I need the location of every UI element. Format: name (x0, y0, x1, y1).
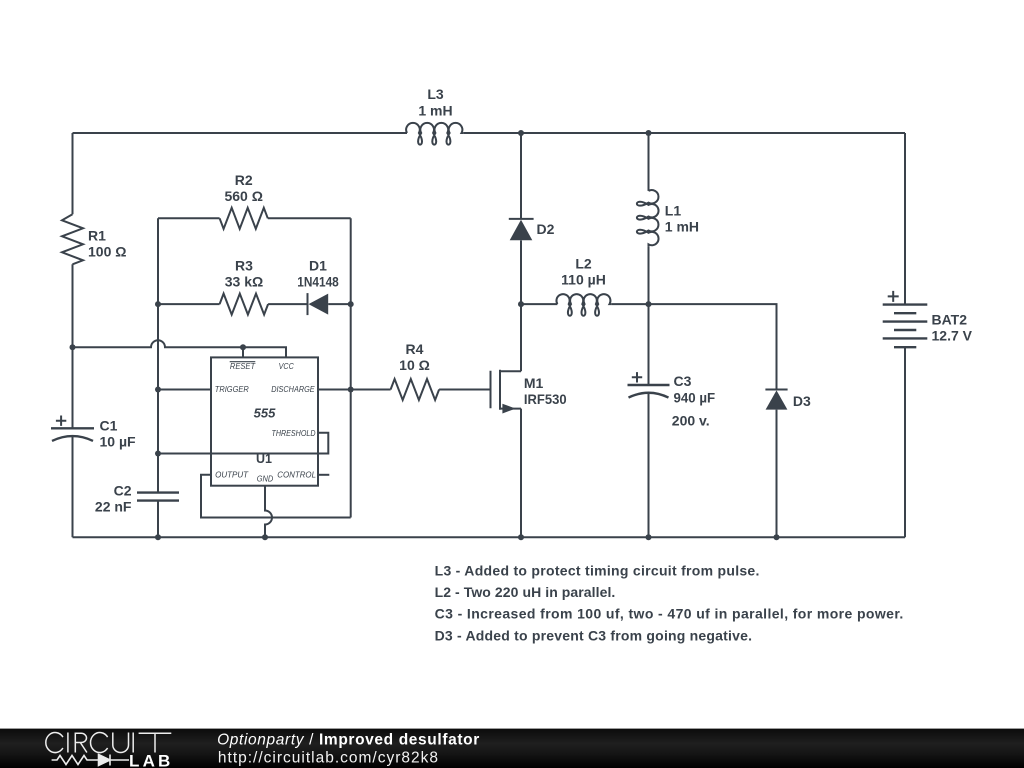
svg-text:C2: C2 (114, 483, 132, 499)
transistor M1 (491, 370, 567, 414)
wire left rail (72, 133, 74, 537)
junction R3 right (348, 301, 354, 307)
svg-text:L2: L2 (575, 256, 592, 272)
svg-text:TRIGGER: TRIGGER (215, 384, 249, 394)
svg-text:L1: L1 (665, 203, 682, 219)
svg-text:L3 - Added to protect timing c: L3 - Added to protect timing circuit fro… (435, 563, 760, 579)
svg-text:200 v.: 200 v. (672, 412, 710, 428)
inductor L1 (637, 190, 699, 247)
footer bar (0, 729, 1024, 768)
wire R2 row (158, 217, 351, 219)
svg-text:10 µF: 10 µF (100, 434, 137, 450)
svg-text:1 mH: 1 mH (665, 219, 699, 235)
wire C2 bottom (157, 501, 159, 538)
footer url (218, 749, 439, 766)
svg-text:THRESHOLD: THRESHOLD (272, 428, 316, 438)
svg-text:U1: U1 (256, 452, 272, 466)
svg-text:D2: D2 (537, 221, 555, 237)
svg-text:D1: D1 (309, 257, 327, 273)
wire GND with hop (265, 486, 272, 538)
wire TRIGGER (158, 389, 211, 391)
footer title (217, 731, 480, 748)
wire THRESHOLD (158, 433, 328, 454)
junction bottom rail / D3 (774, 534, 780, 540)
resistor R2 (220, 172, 268, 229)
resistor R4 (391, 341, 440, 400)
svg-text:RESET: RESET (230, 361, 256, 371)
wire bottom rail (73, 536, 906, 538)
wire D3 branch (649, 304, 777, 537)
wire M1 source (520, 409, 522, 538)
svg-text:GND: GND (257, 474, 274, 484)
notes text (435, 563, 904, 644)
svg-text:Optionparty / Improved desulfa: Optionparty / Improved desulfator (217, 731, 480, 748)
junction bottom rail / source (518, 534, 524, 540)
junction bottom rail / C3 (646, 534, 652, 540)
svg-text:http://circuitlab.com/cyr82k8: http://circuitlab.com/cyr82k8 (218, 749, 439, 766)
svg-text:IRF530: IRF530 (524, 391, 567, 407)
resistor R1 (62, 214, 126, 264)
capacitor C2 (95, 483, 179, 515)
svg-text:M1: M1 (524, 375, 544, 391)
wire R3 row (158, 303, 351, 305)
svg-text:100 Ω: 100 Ω (88, 243, 126, 259)
wire L2 row (521, 303, 649, 305)
wire R2 right vertical (350, 218, 352, 517)
diode D3 (765, 390, 811, 410)
wire RESET/VCC (73, 340, 287, 357)
svg-text:C3: C3 (674, 373, 692, 389)
svg-text:10 Ω: 10 Ω (399, 357, 430, 373)
junction bottom rail / GND (262, 534, 268, 540)
junction top rail / D2 (518, 130, 524, 136)
wire right rail (904, 133, 906, 537)
wire DISCHARGE row (318, 389, 491, 391)
wire OUTPUT (201, 475, 351, 518)
svg-text:12.7 V: 12.7 V (932, 327, 973, 343)
svg-text:CONTROL: CONTROL (277, 470, 316, 480)
svg-text:L3: L3 (427, 86, 444, 102)
wire C3 branch (648, 304, 650, 537)
svg-text:1 mH: 1 mH (418, 102, 452, 118)
svg-text:LAB: LAB (129, 751, 174, 768)
resistor R3 (220, 257, 269, 314)
svg-text:22 nF: 22 nF (95, 499, 132, 515)
svg-text:D3 - Added to prevent C3 from: D3 - Added to prevent C3 from going nega… (435, 627, 752, 643)
junction left rail / reset wire (70, 344, 76, 350)
svg-text:VCC: VCC (279, 361, 295, 371)
svg-text:C3 - Increased from 100 uf, tw: C3 - Increased from 100 uf, two - 470 uf… (435, 606, 904, 622)
junction L1 / L2 (646, 301, 652, 307)
svg-text:R4: R4 (406, 341, 424, 357)
svg-text:R1: R1 (88, 227, 106, 243)
svg-text:560 Ω: 560 Ω (224, 188, 262, 204)
wire top rail (73, 132, 906, 134)
svg-text:OUTPUT: OUTPUT (215, 470, 249, 480)
wire D2 branch (520, 133, 522, 371)
svg-text:C1: C1 (100, 418, 118, 434)
capacitor C1 (51, 416, 136, 450)
svg-text:110 µH: 110 µH (561, 272, 606, 288)
IC U1 555 timer (211, 357, 318, 485)
battery BAT2 (883, 291, 973, 347)
diode D2 (509, 219, 555, 240)
wire CONTROL stub (318, 474, 329, 476)
junction drain / L2 (518, 301, 524, 307)
svg-text:940 µF: 940 µF (674, 390, 716, 406)
svg-text:33 kΩ: 33 kΩ (225, 273, 263, 289)
wire L1 bottom (648, 247, 650, 304)
inductor L3 (406, 86, 464, 145)
svg-text:555: 555 (254, 405, 276, 420)
inductor L2 (556, 256, 611, 316)
svg-text:R3: R3 (235, 257, 253, 273)
junction top rail / L1 (646, 130, 652, 136)
svg-text:1N4148: 1N4148 (297, 273, 339, 289)
junction discharge (348, 387, 354, 393)
svg-text:L2 - Two 220 uH in parallel.: L2 - Two 220 uH in parallel. (435, 584, 616, 600)
capacitor C3 (628, 372, 716, 428)
junction reset node (240, 344, 246, 350)
junction timing node / trigger (155, 387, 161, 393)
junction bottom rail / C2 (155, 534, 161, 540)
junction timing node / R3 (155, 301, 161, 307)
diode D1 (297, 257, 339, 315)
svg-text:D3: D3 (793, 393, 811, 409)
CircuitLab logo (46, 733, 174, 768)
svg-text:DISCHARGE: DISCHARGE (271, 384, 315, 394)
wire L1 top (648, 133, 650, 191)
svg-text:R2: R2 (235, 172, 253, 188)
svg-text:BAT2: BAT2 (932, 311, 968, 327)
wire timing node vertical (157, 218, 159, 492)
junction timing node / threshold (155, 451, 161, 457)
